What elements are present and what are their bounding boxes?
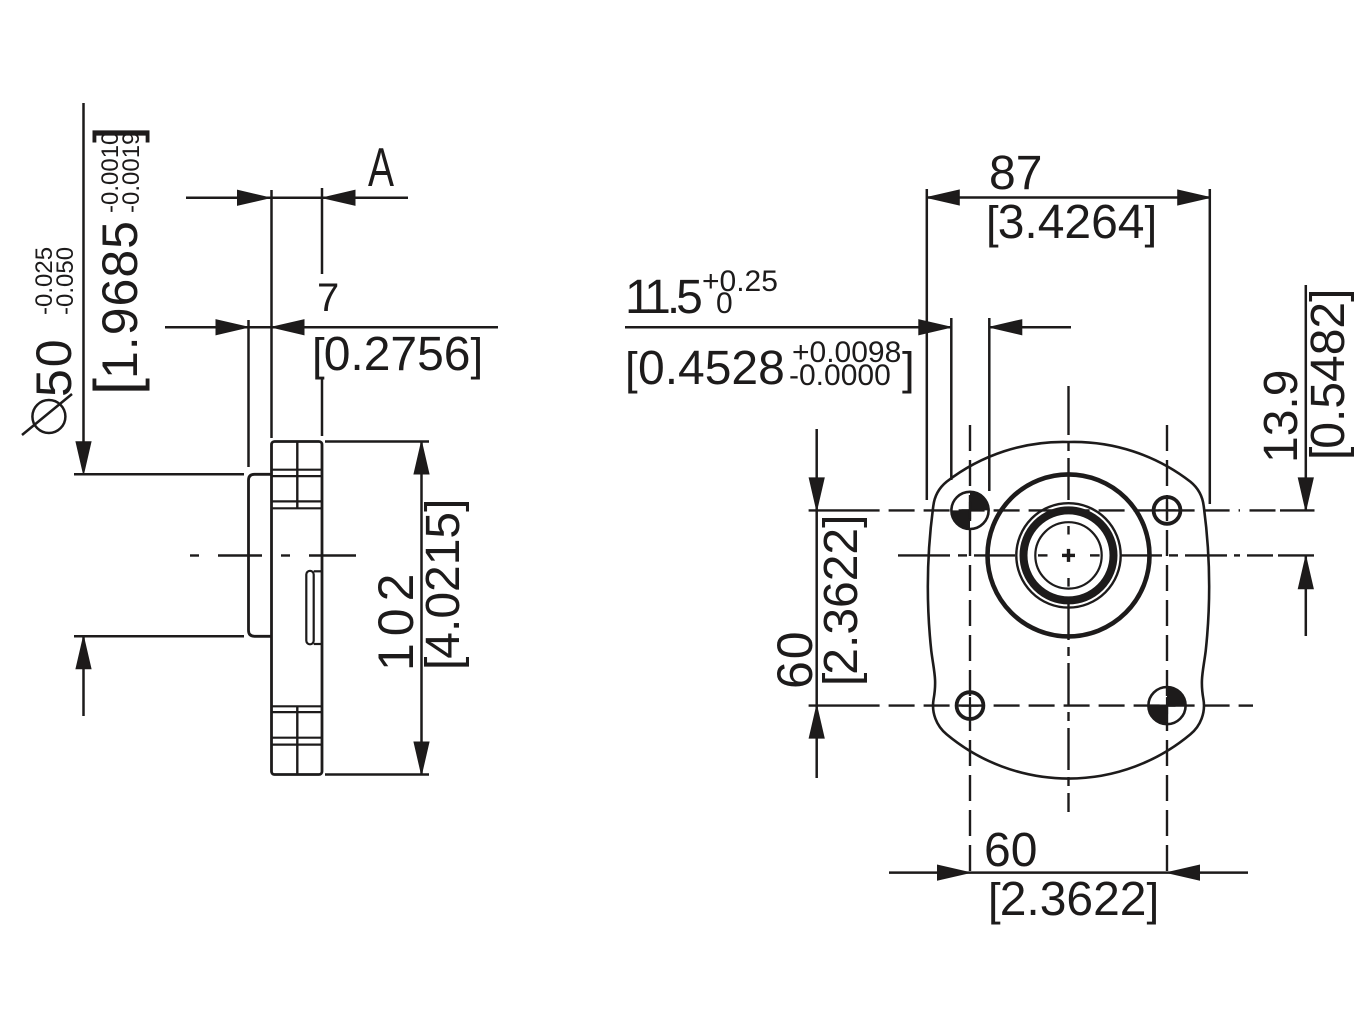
svg-text:]: ] xyxy=(1145,197,1158,248)
svg-text:]: ] xyxy=(815,515,868,528)
svg-text:]: ] xyxy=(471,329,484,380)
svg-text:7: 7 xyxy=(317,276,339,320)
svg-text:-0.0000: -0.0000 xyxy=(789,359,891,392)
svg-text:0: 0 xyxy=(716,287,733,320)
svg-text:13.9: 13.9 xyxy=(1255,370,1308,463)
svg-text:1.9685: 1.9685 xyxy=(92,220,148,379)
svg-text:-0.050: -0.050 xyxy=(52,247,79,315)
svg-text:0.5482: 0.5482 xyxy=(1302,302,1355,449)
svg-text:2.3622: 2.3622 xyxy=(1000,873,1147,926)
svg-text:102: 102 xyxy=(368,567,424,671)
svg-text:]: ] xyxy=(902,343,915,394)
svg-text:]: ] xyxy=(1147,874,1160,925)
svg-text:[: [ xyxy=(625,343,638,394)
svg-text:11.5: 11.5 xyxy=(625,271,701,324)
svg-text:3.4264: 3.4264 xyxy=(998,196,1145,249)
svg-text:60: 60 xyxy=(984,824,1037,877)
svg-text:2.3622: 2.3622 xyxy=(815,528,868,675)
svg-text:50: 50 xyxy=(26,337,82,397)
svg-text:87: 87 xyxy=(989,147,1042,200)
svg-text:]: ] xyxy=(82,126,150,143)
svg-text:]: ] xyxy=(417,499,470,512)
svg-text:+0.25: +0.25 xyxy=(702,265,778,298)
svg-text:[: [ xyxy=(82,378,150,395)
svg-text:0.4528: 0.4528 xyxy=(638,342,785,395)
svg-text:A: A xyxy=(368,136,394,198)
svg-text:]: ] xyxy=(1302,289,1355,302)
svg-text:4.0215: 4.0215 xyxy=(417,512,470,659)
svg-text:0.2756: 0.2756 xyxy=(324,328,471,381)
